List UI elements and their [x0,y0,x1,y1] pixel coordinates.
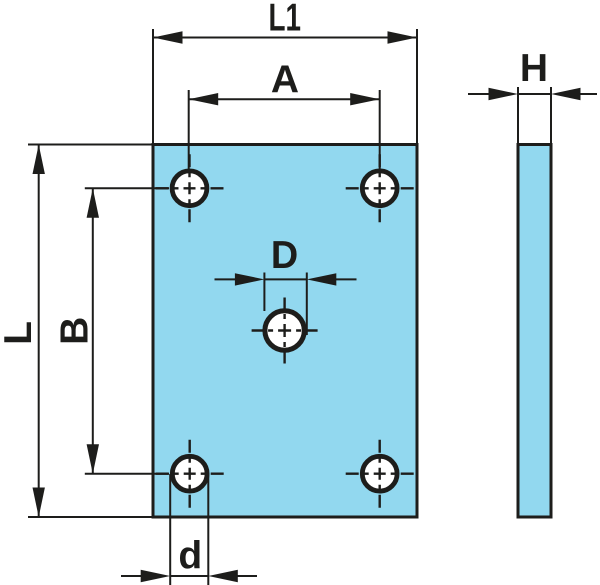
svg-text:H: H [520,47,548,90]
svg-text:L1: L1 [268,0,301,39]
svg-text:A: A [271,59,299,102]
svg-text:d: d [178,535,202,578]
svg-text:L: L [0,321,40,345]
svg-text:B: B [54,317,97,345]
svg-text:D: D [271,234,298,277]
